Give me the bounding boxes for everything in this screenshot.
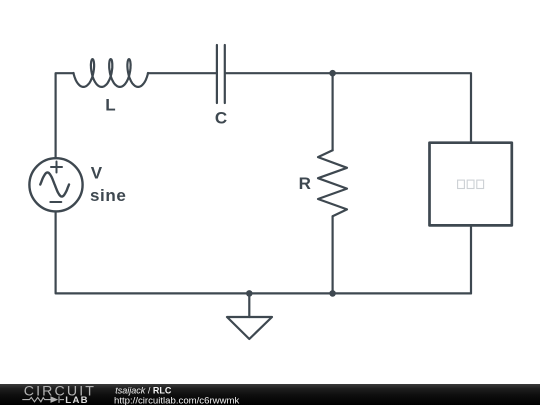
voltage source V1 circle — [29, 158, 82, 211]
svg-text:R: R — [299, 174, 311, 193]
wire resistor branch top — [332, 73, 334, 150]
logo diode triangle — [51, 396, 59, 403]
svg-text:tsaijack / RLC: tsaijack / RLC — [115, 386, 172, 396]
resistor R — [318, 150, 347, 216]
junction dot node bottom of R — [329, 290, 336, 297]
ground symbol — [227, 317, 272, 339]
svg-text:C: C — [215, 109, 227, 128]
tofu glyphs inside box — [458, 180, 484, 188]
wire capacitor to top-right corner — [226, 73, 471, 141]
wire resistor branch bottom — [332, 216, 334, 293]
voltage source sine glyph — [40, 173, 69, 197]
svg-text:L: L — [105, 95, 115, 114]
wire box bottom to bottom rail — [470, 227, 472, 294]
capacitor C — [217, 45, 225, 103]
wire inductor to capacitor — [148, 72, 216, 74]
svg-text:LAB: LAB — [65, 395, 89, 405]
junction dot ground node — [246, 290, 253, 297]
wire bottom rail — [56, 212, 471, 294]
logo resistor-diode line — [22, 396, 64, 403]
subcircuit box — [430, 143, 512, 226]
wire top-left vertical — [56, 73, 74, 158]
voltage source plus sign — [51, 162, 62, 173]
footer bar — [0, 384, 540, 405]
voltage source minus sign — [50, 201, 61, 203]
svg-text:sine: sine — [90, 186, 126, 205]
svg-text:V: V — [91, 164, 103, 183]
junction dot node top of R — [329, 70, 336, 77]
svg-text:http://circuitlab.com/c6rwwmk: http://circuitlab.com/c6rwwmk — [114, 395, 239, 405]
inductor L — [74, 59, 149, 87]
ground stub wire — [248, 293, 250, 317]
